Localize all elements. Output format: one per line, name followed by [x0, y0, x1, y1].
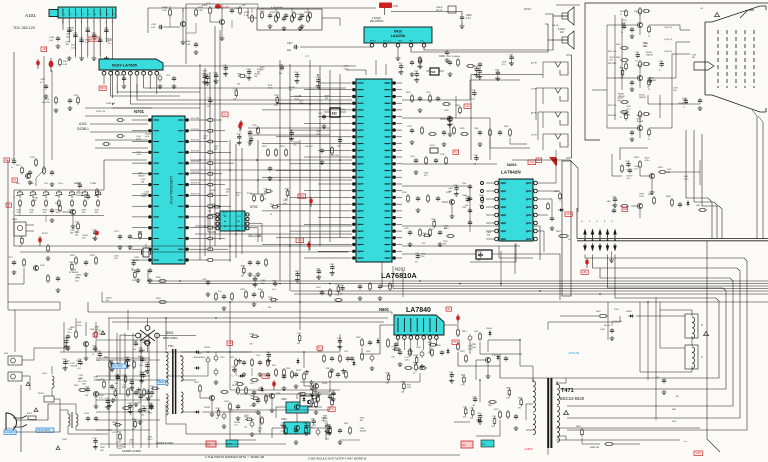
svg-text:1-(202.7)s: 1-(202.7)s	[664, 51, 672, 53]
svg-text:C121: C121	[166, 75, 170, 77]
red component VD102	[49, 58, 54, 72]
svg-text:0.01: 0.01	[85, 395, 89, 397]
comb IC N202 LA7642N	[495, 179, 538, 242]
tuner A101	[49, 7, 116, 18]
wires N701 right bus	[215, 120, 234, 260]
svg-text:C641: C641	[471, 90, 475, 92]
labels video amps	[617, 43, 652, 123]
video amp V902	[620, 60, 650, 92]
parts right of N701	[248, 125, 260, 145]
svg-text:C495: C495	[316, 268, 320, 270]
svg-text:F601: F601	[393, 5, 399, 8]
svg-text:V2 IN: V2 IN	[531, 135, 537, 137]
svg-text:100: 100	[75, 231, 78, 233]
svg-text:C585: C585	[266, 352, 270, 354]
svg-text:R461: R461	[596, 311, 601, 313]
svg-text:L501: L501	[42, 373, 48, 375]
cyan label D503	[157, 380, 166, 384]
red label TP5	[528, 158, 557, 166]
wires mid right	[612, 148, 700, 185]
svg-text:0.01: 0.01	[139, 365, 143, 367]
svg-text:C245: C245	[462, 207, 466, 209]
driver stage V431	[194, 382, 229, 417]
psu secondary rail	[202, 352, 260, 434]
svg-text:330: 330	[386, 382, 389, 384]
svg-text:RT501: RT501	[38, 393, 45, 395]
svg-text:471: 471	[415, 262, 418, 264]
wires flyback primary	[520, 340, 533, 430]
svg-text:R330: R330	[156, 277, 161, 279]
svg-text:2kv-1n: 2kv-1n	[604, 325, 610, 327]
svg-text:C231: C231	[407, 126, 412, 128]
svg-text:R519: R519	[318, 351, 322, 353]
svg-text:R605: R605	[506, 388, 510, 390]
note 1	[205, 455, 265, 459]
svg-text:24LC04B: 24LC04B	[248, 234, 261, 238]
wire fbt rails	[548, 428, 700, 455]
wires N202 right	[537, 150, 560, 252]
svg-text:4.7u: 4.7u	[68, 332, 72, 334]
svg-text:C607: C607	[474, 331, 479, 333]
svg-text:R471: R471	[494, 409, 499, 411]
heater fb parts	[576, 426, 640, 449]
svg-text:H: H	[701, 324, 703, 327]
svg-text:0.01: 0.01	[138, 356, 142, 358]
svg-text:104: 104	[472, 405, 475, 407]
svg-text:C581: C581	[470, 408, 474, 410]
texture above jungle	[398, 54, 514, 82]
svg-text:TP8: TP8	[263, 374, 268, 378]
svg-text:CH+: CH+	[16, 183, 21, 185]
texture crt board	[609, 20, 696, 109]
wire top rail2	[186, 4, 258, 64]
svg-text:R242: R242	[274, 95, 278, 97]
transistor V402 circuit	[606, 194, 655, 218]
red label near N701	[222, 112, 228, 117]
svg-text:C434: C434	[224, 401, 229, 403]
svg-text:VD461: VD461	[626, 311, 632, 313]
components right of N202	[547, 191, 565, 231]
ABL parts	[476, 401, 518, 431]
svg-text:VOL-: VOL-	[44, 183, 49, 185]
video amp V901	[620, 7, 650, 39]
svg-text:R644: R644	[479, 195, 483, 197]
svg-text:C220: C220	[11, 158, 15, 160]
wires N201 top	[346, 60, 420, 75]
svg-text:VD701: VD701	[42, 233, 48, 235]
components mid cluster1	[262, 146, 333, 181]
svg-text:C102: C102	[151, 24, 157, 26]
svg-text:C118: C118	[118, 75, 122, 77]
svg-text:100: 100	[293, 145, 296, 147]
label LA76810A	[381, 271, 417, 280]
crystal B202	[426, 68, 444, 75]
components right of N201 c2	[407, 124, 469, 147]
svg-text:C713: C713	[477, 68, 481, 70]
wires crt board feeds	[592, 15, 629, 128]
svg-text:1N4148: 1N4148	[646, 55, 653, 57]
svg-text:C705: C705	[340, 285, 344, 287]
svg-text:471: 471	[340, 293, 343, 295]
jack XS203 AIN2	[531, 112, 568, 129]
secondary caps	[214, 354, 233, 429]
svg-text:R331: R331	[156, 298, 161, 300]
svg-text:R103: R103	[202, 5, 208, 7]
blue label fuse rating	[36, 428, 54, 432]
svg-text:1u: 1u	[621, 32, 623, 34]
svg-text:R625: R625	[122, 387, 127, 389]
svg-text:B9V: B9V	[100, 86, 105, 90]
svg-text:C245: C245	[404, 228, 409, 230]
labels under tuner	[66, 27, 113, 49]
wires psu bottom	[186, 412, 360, 440]
svg-text:LA7642N: LA7642N	[501, 170, 521, 175]
svg-text:4.7u: 4.7u	[627, 178, 631, 180]
wire top rail	[148, 8, 376, 33]
psu extra parts4	[109, 340, 159, 444]
wire gnd amp	[396, 47, 401, 61]
svg-text:R624: R624	[112, 422, 116, 424]
error amp V511	[264, 393, 281, 413]
svg-text:C507: C507	[197, 353, 203, 355]
psu mesh horizontals	[96, 360, 460, 455]
svg-text:C768: C768	[213, 72, 217, 74]
resistor column right of N701	[206, 119, 215, 262]
svg-text:C515: C515	[256, 355, 260, 357]
svg-text:104: 104	[138, 402, 141, 404]
svg-text:N701: N701	[134, 109, 145, 114]
svg-text:1.THE PARTS MARKED WITH ☆ MARK: 1.THE PARTS MARKED WITH ☆ MARK ΔR	[205, 455, 265, 459]
svg-text:V601: V601	[90, 329, 94, 331]
svg-text:4.7u: 4.7u	[129, 442, 133, 444]
svg-text:1N4148: 1N4148	[649, 80, 656, 82]
CRT grid dashes	[718, 30, 754, 88]
svg-text:1N4148: 1N4148	[637, 121, 644, 123]
texture hot area	[461, 344, 523, 428]
warning triangle T471	[564, 410, 569, 415]
note 2	[308, 457, 367, 461]
jack XS201 AIN1	[531, 62, 568, 79]
svg-text:4.7u: 4.7u	[99, 398, 103, 400]
svg-text:C353: C353	[329, 264, 333, 266]
svg-text:100: 100	[617, 100, 620, 102]
svg-text:T511: T511	[168, 344, 174, 348]
heater arrow	[694, 62, 714, 70]
svg-text:1N4148: 1N4148	[70, 366, 77, 368]
svg-text:C704: C704	[252, 276, 256, 278]
speaker BL601	[558, 7, 574, 34]
svg-text:C401: C401	[202, 279, 207, 281]
red label 135V	[524, 447, 533, 451]
svg-text:4.7u: 4.7u	[502, 64, 506, 66]
svg-text:N103 LA7805: N103 LA7805	[112, 63, 138, 68]
svg-text:0.01: 0.01	[279, 73, 283, 75]
texture right of jungle	[415, 90, 491, 264]
components near V432	[244, 391, 332, 437]
left mid parts	[25, 157, 54, 187]
svg-text:C794: C794	[492, 416, 496, 418]
trap Z201	[430, 145, 438, 153]
red label left col	[4, 158, 9, 162]
parts band above N701	[102, 119, 125, 146]
texture mid band4	[241, 264, 345, 309]
wires N202 left	[481, 182, 495, 240]
svg-text:4.7u: 4.7u	[108, 43, 112, 45]
pincushion parts	[666, 196, 707, 211]
red label B+115V	[227, 341, 233, 345]
svg-text:R480 1W: R480 1W	[590, 447, 600, 449]
wire reg out right	[144, 66, 356, 88]
capacitor C612	[460, 14, 473, 21]
wires ABL	[454, 380, 500, 436]
svg-text:C350: C350	[141, 406, 145, 408]
svg-text:471: 471	[248, 145, 251, 147]
wire harness wrap	[525, 255, 747, 431]
svg-text:EW: EW	[623, 207, 628, 211]
svg-text:12V: 12V	[305, 55, 310, 58]
components right of N201 c4	[402, 192, 455, 219]
svg-text:R626: R626	[285, 188, 289, 190]
more bus dots	[179, 280, 649, 303]
texture mid band2	[203, 130, 342, 151]
wire horizontals mid	[113, 160, 352, 252]
svg-text:R127: R127	[244, 417, 248, 419]
wire audio vcc	[385, 8, 465, 29]
svg-text:0.01u: 0.01u	[79, 377, 84, 379]
svg-text:5.4P: 5.4P	[162, 10, 167, 12]
transistor V432 highlighted	[281, 398, 308, 413]
svg-text:0.1-250v: 0.1-250v	[113, 365, 123, 368]
svg-text:TP2: TP2	[299, 194, 305, 198]
label grid2	[488, 405, 493, 407]
svg-text:104: 104	[326, 438, 329, 440]
svg-text:R426: R426	[666, 196, 671, 198]
svg-text:100: 100	[289, 90, 292, 92]
bus resistors	[156, 277, 167, 303]
svg-text:100: 100	[444, 228, 447, 230]
svg-text:12V: 12V	[566, 212, 571, 216]
svg-text:1N4148: 1N4148	[639, 97, 646, 99]
S cap	[656, 377, 666, 395]
svg-text:C235: C235	[410, 156, 415, 158]
svg-text:L441: L441	[696, 205, 700, 207]
texture psu left parts	[93, 351, 154, 452]
warning triangle yoke	[704, 331, 709, 336]
svg-text:1u: 1u	[647, 86, 649, 88]
texture left col	[11, 158, 98, 248]
wire horizontals upper	[113, 66, 356, 135]
svg-text:R260: R260	[554, 191, 559, 193]
svg-text:R921 1.2k: R921 1.2k	[608, 105, 617, 107]
svg-text:R548: R548	[431, 219, 435, 221]
wires left col	[8, 268, 60, 310]
svg-text:C368: C368	[129, 379, 133, 381]
svg-text:VCC: VCC	[420, 41, 425, 43]
wires bridge	[120, 318, 196, 352]
warning triangle psu1	[26, 382, 30, 386]
resistor R121	[244, 12, 253, 23]
svg-text:C116: C116	[415, 253, 419, 255]
red component LED top	[206, 3, 229, 9]
svg-text:100: 100	[75, 280, 78, 282]
svg-text:C286: C286	[474, 128, 478, 130]
warning triangle psu3	[56, 446, 60, 450]
wires LA7840 right	[444, 325, 522, 366]
svg-text:C284: C284	[455, 105, 460, 107]
svg-text:C236: C236	[440, 154, 445, 156]
svg-text:C786: C786	[62, 359, 66, 361]
wires AC input	[16, 404, 60, 432]
red component VD601	[456, 314, 460, 324]
damper parts	[460, 351, 467, 363]
svg-text:R395: R395	[386, 372, 390, 374]
svg-text:C344: C344	[246, 69, 250, 71]
svg-text:C244: C244	[462, 195, 466, 197]
junction dots buses	[112, 87, 521, 381]
resistor R117	[59, 58, 69, 67]
svg-text:471: 471	[473, 164, 476, 166]
red oval left	[36, 59, 40, 69]
svg-text:R782: R782	[70, 255, 75, 257]
svg-text:1u: 1u	[659, 70, 661, 72]
svg-text:0.01: 0.01	[625, 170, 629, 172]
svg-text:C481: C481	[145, 389, 149, 391]
svg-text:12V: 12V	[465, 104, 470, 108]
IR receiver N704	[12, 219, 34, 236]
labels R18	[305, 146, 340, 157]
svg-text:R478: R478	[576, 426, 581, 428]
svg-text:11kV: 11kV	[186, 41, 191, 43]
svg-text:R511: R511	[286, 368, 290, 370]
red label 12V jack	[464, 104, 471, 108]
capacitor C910	[678, 98, 702, 111]
svg-text:R743 22k: R743 22k	[191, 129, 199, 131]
svg-text:C716: C716	[114, 231, 119, 233]
svg-text:R355: R355	[237, 73, 241, 75]
svg-text:C568: C568	[612, 196, 616, 198]
svg-text:1N4148: 1N4148	[360, 431, 367, 433]
wire LA7840 to bus	[300, 346, 420, 382]
svg-text:4.5 BalDuM: 4.5 BalDuM	[271, 7, 283, 9]
wire 707 drop	[694, 241, 720, 455]
red label D507	[206, 441, 216, 447]
tuner pin numbers	[62, 18, 114, 24]
components below N201	[316, 282, 391, 301]
label 11kV	[186, 41, 198, 55]
svg-text:0.01: 0.01	[272, 289, 276, 291]
bottom-left cluster	[122, 387, 154, 425]
svg-text:0.1u: 0.1u	[218, 291, 222, 293]
svg-text:C643: C643	[77, 182, 81, 184]
svg-text:N501: N501	[298, 393, 304, 395]
wires N103 pins down	[104, 75, 356, 110]
svg-text:1u: 1u	[231, 375, 233, 377]
svg-text:R137: R137	[391, 347, 395, 349]
label T471	[561, 388, 574, 394]
svg-text:R202 100: R202 100	[330, 155, 340, 157]
svg-text:C174: C174	[85, 386, 89, 388]
svg-text:R621: R621	[74, 385, 79, 387]
svg-text:V513: V513	[322, 383, 328, 385]
svg-text:R606: R606	[436, 345, 441, 347]
pin names N202 inner	[501, 183, 532, 239]
psu extra wires	[109, 318, 340, 444]
EHT cap	[600, 322, 614, 341]
wire antenna up	[8, 302, 70, 360]
texture psu left parts2	[66, 322, 105, 397]
red label 12V conn	[565, 212, 572, 216]
svg-text:C201: C201	[127, 403, 131, 405]
feedback parts	[232, 383, 264, 407]
svg-text:330: 330	[518, 407, 521, 409]
svg-text:4.7u: 4.7u	[76, 277, 80, 279]
svg-text:N202: N202	[507, 162, 517, 167]
parts near V701	[50, 188, 99, 223]
svg-text:4.7u: 4.7u	[234, 425, 238, 427]
svg-text:JW 10: JW 10	[524, 8, 531, 11]
svg-text:C373: C373	[330, 390, 334, 392]
svg-text:R7x4 33k: R7x4 33k	[191, 118, 199, 120]
jack XS204 VIN2	[531, 134, 568, 150]
red label B9V	[99, 86, 106, 90]
svg-text:R286: R286	[504, 126, 508, 128]
pin names N701 left	[136, 133, 151, 236]
components mid cluster3	[202, 279, 233, 311]
label C553	[156, 442, 174, 445]
AV jack area parts	[104, 357, 135, 379]
texture left col2	[69, 256, 136, 303]
svg-text:C104: C104	[49, 37, 55, 39]
wire speaker	[548, 16, 562, 40]
wires heater drive	[230, 302, 336, 404]
svg-text:103: 103	[337, 146, 340, 148]
svg-text:GND: GND	[398, 41, 403, 43]
svg-text:R612: R612	[462, 331, 467, 333]
svg-text:2200PF AC400v: 2200PF AC400v	[156, 442, 174, 445]
svg-text:C605: C605	[416, 347, 421, 349]
wires N701 pin stubs	[132, 118, 208, 260]
svg-text:V+: V+	[482, 442, 486, 446]
red label mid3	[296, 238, 311, 251]
svg-text:R521: R521	[232, 385, 237, 387]
svg-text:1N4148: 1N4148	[258, 390, 265, 392]
caps CX501	[84, 413, 98, 422]
svg-text:0.01: 0.01	[77, 368, 81, 370]
svg-text:C743: C743	[337, 137, 341, 139]
red component VD706	[239, 120, 243, 130]
svg-text:R742 22k: R742 22k	[191, 140, 199, 142]
texture psu left grid	[96, 333, 157, 448]
svg-text:C910: C910	[682, 99, 688, 101]
svg-text:R214: R214	[280, 146, 285, 148]
svg-text:0.01u: 0.01u	[468, 348, 473, 350]
cyan label BYV26C	[226, 440, 238, 447]
wires HOT	[476, 340, 520, 380]
degauss triangle	[715, 12, 720, 17]
wire keyboard bus	[14, 190, 104, 216]
svg-text:R18 150: R18 150	[305, 146, 313, 148]
jack XS202 VIN1	[531, 88, 568, 104]
svg-text:C276: C276	[337, 338, 341, 340]
focus lines	[556, 440, 687, 443]
svg-text:R270: R270	[216, 408, 220, 410]
svg-text:scr: scr	[684, 441, 687, 443]
svg-text:R621: R621	[518, 397, 522, 399]
labels harness	[672, 396, 679, 423]
svg-text:XP5B1: XP5B1	[5, 428, 13, 430]
svg-text:C144: C144	[248, 136, 252, 138]
texture psu bottom	[258, 418, 367, 438]
